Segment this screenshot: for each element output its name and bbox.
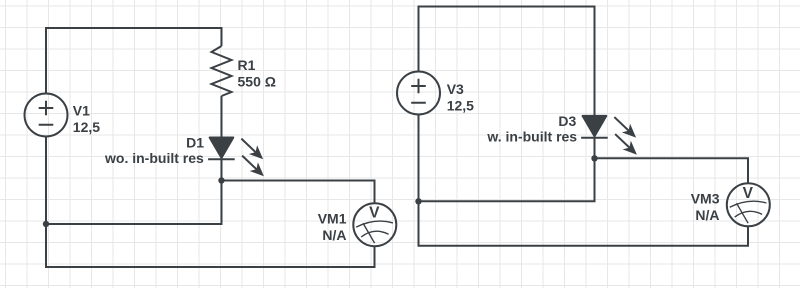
- wire top rail left circuit: [46, 28, 222, 94]
- node junction dot D3 tap: [591, 155, 597, 161]
- LED D3: [581, 113, 641, 159]
- wire top rail right circuit: [419, 7, 595, 117]
- voltage source V1: [25, 94, 68, 137]
- voltage source V3: [397, 72, 440, 115]
- wire resistor to D1: [221, 96, 223, 138]
- svg-text:VM3: VM3: [691, 190, 720, 206]
- voltmeter VM3: [727, 183, 770, 226]
- wire V1 bottom, bottom rail, up to VM1: [46, 137, 375, 268]
- voltmeter VM1: [353, 203, 396, 246]
- svg-text:N/A: N/A: [322, 227, 346, 243]
- LED D1: [208, 134, 268, 180]
- svg-text:V3: V3: [447, 81, 464, 97]
- wire VM1 top to D1 junction: [222, 181, 375, 204]
- svg-text:12,5: 12,5: [73, 119, 100, 135]
- svg-text:V1: V1: [73, 102, 90, 118]
- svg-text:wo. in-built res: wo. in-built res: [104, 150, 204, 166]
- node junction dot left rail: [43, 221, 49, 227]
- svg-text:550 Ω: 550 Ω: [238, 74, 276, 90]
- svg-text:12,5: 12,5: [447, 97, 474, 113]
- resistor R1: [212, 46, 232, 96]
- svg-text:R1: R1: [238, 57, 256, 73]
- wire D1 cathode down and left: [46, 159, 222, 224]
- svg-text:VM1: VM1: [318, 211, 347, 227]
- svg-text:D3: D3: [558, 113, 576, 129]
- wire VM3 top to D3 junction: [595, 158, 749, 183]
- node junction dot right circuit left rail: [415, 198, 421, 204]
- svg-text:w. in-built res: w. in-built res: [486, 128, 577, 144]
- wire V3 bottom, bottom rail, up to VM3: [419, 115, 749, 246]
- wire D3 cathode down and left: [419, 138, 595, 202]
- node junction dot D1 tap: [218, 177, 224, 183]
- svg-text:D1: D1: [186, 135, 204, 151]
- svg-text:N/A: N/A: [695, 207, 719, 223]
